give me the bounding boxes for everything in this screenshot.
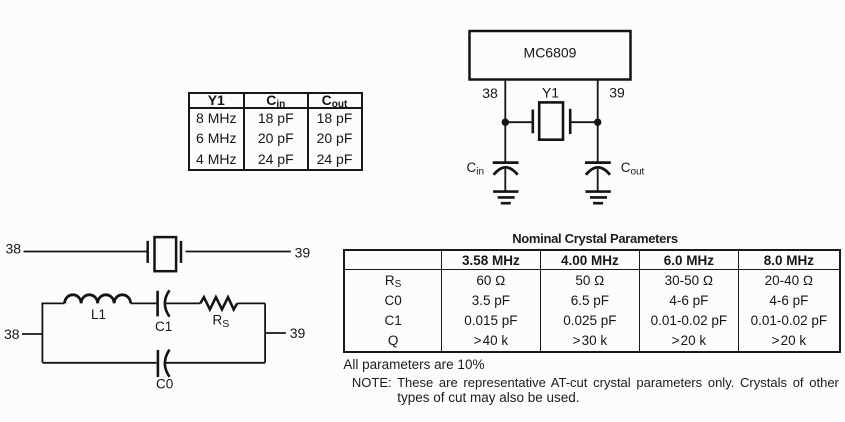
crystal Y1 [533,102,570,139]
IC U1 MC6809 [470,31,631,80]
junction node 38 [502,119,509,126]
wire right side [264,303,266,362]
svg-text:Cin: Cin [467,160,485,178]
wire lead right [265,332,286,334]
wire left side [41,303,43,362]
svg-text:C1: C1 [155,319,172,334]
svg-text:38: 38 [4,326,20,342]
wire C1 to RS [166,302,201,304]
capacitor Cin [493,163,519,175]
capacitor C1 [158,290,170,316]
svg-text:C0: C0 [156,377,173,392]
wire pin39 vertical [597,80,599,163]
junction node 39 [594,119,601,126]
wire crystal to 39 [186,251,291,253]
inductor L1 [65,295,131,304]
wire Cin to ground [504,169,506,192]
svg-text:Y1: Y1 [542,85,559,101]
wire bottom-left segment [42,362,156,364]
wire node38 to crystal [505,121,533,123]
svg-text:MC6809: MC6809 [524,45,577,61]
svg-text:39: 39 [295,245,311,261]
wire RS to right side [237,302,265,304]
crystal Y1 (equivalent) [148,237,181,271]
svg-text:38: 38 [482,85,498,101]
svg-text:Cout: Cout [621,160,645,178]
svg-text:38: 38 [6,241,22,257]
wire top-left segment [42,302,65,304]
capacitor Cout [585,163,611,175]
wire pin38 vertical [504,80,506,163]
wire bottom-right segment [166,362,266,364]
wire lead left [22,333,42,335]
wire L1 to C1 [131,302,157,304]
wire 38 to crystal [24,251,148,253]
svg-text:39: 39 [290,325,306,341]
ground (Cout) [585,192,610,204]
svg-text:39: 39 [609,85,625,101]
capacitor C0 [158,350,170,377]
resistor RS [200,297,237,309]
wire crystal to node39 [570,121,598,123]
wire Cout to ground [597,169,599,192]
ground (Cin) [493,192,518,204]
svg-text:L1: L1 [91,307,106,322]
svg-text:RS: RS [213,313,230,331]
